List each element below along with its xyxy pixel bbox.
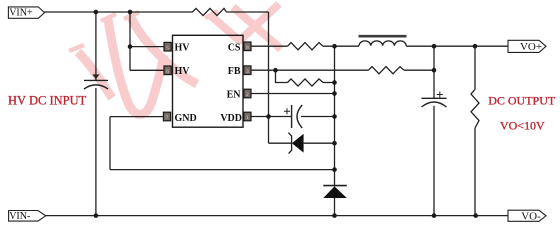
svg-text:3: 3 xyxy=(246,69,249,75)
capacitor C-out xyxy=(422,92,447,108)
wire load top xyxy=(474,46,476,89)
wire GND down xyxy=(109,117,111,170)
wire R-FB-upper to output node xyxy=(404,69,434,71)
wire R-FB-lower to bus xyxy=(323,82,335,84)
svg-text:VO<10V: VO<10V xyxy=(500,118,545,132)
junction: FB resistor to output node xyxy=(432,68,437,73)
junction: input cap at VIN+ rail xyxy=(94,10,99,15)
junction: VDD cap to bus xyxy=(332,114,337,119)
pin 5 square xyxy=(164,42,171,51)
svg-text:FB: FB xyxy=(228,66,241,77)
svg-text:EN: EN xyxy=(227,89,242,100)
svg-text:6: 6 xyxy=(166,69,169,75)
wire zener to bus xyxy=(304,142,335,144)
IC U1 body xyxy=(173,35,244,127)
pin 7 square (GND) xyxy=(163,112,170,121)
pin 8 square (CS) xyxy=(244,42,251,51)
junction: HV branch at VIN+ rail xyxy=(128,10,133,15)
zener Z1 xyxy=(288,133,303,154)
junction: load branch at output rail xyxy=(473,44,478,49)
svg-text:GND: GND xyxy=(175,113,197,124)
pin 2 square (EN) xyxy=(244,89,251,98)
svg-text:VO+: VO+ xyxy=(520,41,542,53)
wire FB stub xyxy=(251,69,369,71)
IC pin labels xyxy=(175,42,243,124)
svg-text:CS: CS xyxy=(228,42,241,53)
junction: load at VIN- rail xyxy=(473,213,478,218)
svg-text:HV: HV xyxy=(175,66,191,77)
wire CS stub xyxy=(251,45,288,47)
svg-text:DC OUTPUT: DC OUTPUT xyxy=(488,93,556,107)
junction: diode at VIN- rail xyxy=(332,213,337,218)
svg-text:HV: HV xyxy=(175,42,191,53)
svg-text:HV DC INPUT: HV DC INPUT xyxy=(8,94,87,108)
wire input cap top xyxy=(95,12,97,80)
pin 3 square (FB) xyxy=(244,66,251,75)
junction: FB divider tap xyxy=(273,68,278,73)
wire input cap bottom xyxy=(95,88,97,216)
svg-text:VO-: VO- xyxy=(521,211,541,223)
svg-text:VIN-: VIN- xyxy=(9,211,30,222)
port VIN+ xyxy=(8,7,44,19)
junction: CS resistor to bus node xyxy=(332,44,337,49)
junction: GND wire to bus xyxy=(332,167,337,172)
wire vertical from top rail to VDD/zener xyxy=(268,12,270,143)
resistor R-top xyxy=(193,8,227,15)
svg-text:1: 1 xyxy=(246,115,249,121)
wire load bottom xyxy=(474,128,476,216)
pin 1 square (VDD) xyxy=(244,112,251,121)
wire GND stub xyxy=(110,116,163,118)
wire zener row xyxy=(269,142,292,144)
wire inductor to VO+ xyxy=(406,45,508,47)
wire VDD stub xyxy=(251,116,292,118)
junction: EN wire to bus xyxy=(332,91,337,96)
wire HV5 stub xyxy=(130,46,164,48)
inductor L1 xyxy=(359,36,407,46)
bus vertical xyxy=(334,46,336,185)
svg-text:VIN+: VIN+ xyxy=(9,8,33,19)
capacitor C-vdd xyxy=(284,105,302,128)
junction: output cap at VIN- rail xyxy=(432,213,437,218)
port VO+ xyxy=(508,40,546,53)
svg-text:VDD: VDD xyxy=(220,113,242,124)
wire C-out bottom xyxy=(433,106,435,216)
resistor R-load xyxy=(471,89,479,128)
wire CS to bus xyxy=(323,45,359,47)
pin 6 square xyxy=(164,66,171,75)
junction: HV5 stub on HV branch xyxy=(128,44,133,49)
wire HV branch vertical xyxy=(129,12,131,70)
wire EN stub xyxy=(251,93,335,95)
svg-text:8: 8 xyxy=(246,45,249,51)
wire bottom rail xyxy=(46,215,508,217)
resistor R-CS xyxy=(288,43,324,50)
wire top rail right xyxy=(227,11,269,13)
junction: zener to bus xyxy=(332,141,337,146)
svg-text:5: 5 xyxy=(166,45,169,51)
wire HV6 stub xyxy=(130,69,164,71)
junction: lower FB resistor to bus xyxy=(332,80,337,85)
wire FB tap down xyxy=(276,70,288,82)
svg-text:2: 2 xyxy=(246,92,249,98)
junction: output node at inductor xyxy=(432,44,437,49)
watermark xyxy=(69,4,281,114)
junction: input cap at VIN- rail xyxy=(94,213,99,218)
resistor R-FB-lower xyxy=(288,79,324,86)
resistor R-FB-upper xyxy=(369,67,405,74)
svg-text:7: 7 xyxy=(166,115,169,121)
wire output node vertical xyxy=(433,46,435,98)
wire diode to bottom rail xyxy=(334,198,336,216)
wire top rail left xyxy=(44,11,192,13)
wire GND across xyxy=(110,169,335,171)
port VO- xyxy=(508,210,546,223)
diode D1 xyxy=(323,186,347,198)
junction: VDD wire at HV-rail dropper xyxy=(266,114,271,119)
port VIN- xyxy=(9,211,46,223)
capacitor C-in xyxy=(84,74,108,89)
wire C-vdd to bus xyxy=(301,116,335,118)
